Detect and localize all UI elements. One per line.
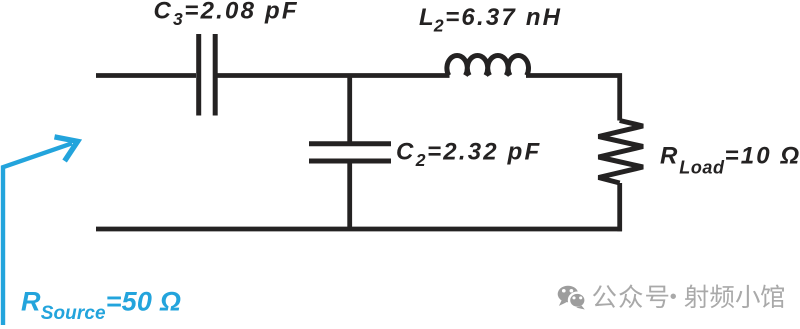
wire node A down to C2: [347, 76, 352, 142]
wire C2 to bottom: [347, 163, 352, 229]
svg-text:RSource=50 Ω: RSource=50 Ω: [21, 287, 181, 324]
svg-text:L2=6.37 nH: L2=6.37 nH: [419, 4, 562, 36]
svg-text:C3=2.08 pF: C3=2.08 pF: [154, 0, 299, 29]
wire L2 to top-right corner: [526, 76, 620, 121]
inductor L2: [447, 56, 529, 76]
svg-text:C2=2.32 pF: C2=2.32 pF: [396, 139, 541, 171]
watermark char 频: [710, 285, 734, 309]
source arrow: [3, 137, 78, 325]
watermark text 公众号·射频小馆: [593, 284, 784, 308]
watermark char 号: [646, 286, 668, 308]
resistor RLoad zigzag: [599, 121, 644, 184]
watermark char 公: [593, 285, 616, 308]
watermark char 射: [685, 285, 709, 309]
watermark wechat icon small bubble: [569, 293, 586, 308]
wire top-left segment: [96, 73, 196, 78]
capacitor C3 plates: [199, 34, 216, 116]
watermark char ·: [671, 294, 676, 299]
watermark char 小: [736, 285, 760, 308]
wire resistor to bottom-right corner: [617, 183, 622, 231]
wire C3 to node A: [218, 73, 450, 78]
capacitor C2 plates: [309, 144, 391, 161]
watermark wechat icon big bubble: [558, 286, 586, 310]
wire bottom: [96, 227, 622, 232]
watermark char 馆: [761, 284, 784, 308]
watermark char 众: [619, 284, 642, 308]
svg-text:RLoad=10 Ω: RLoad=10 Ω: [660, 143, 800, 178]
